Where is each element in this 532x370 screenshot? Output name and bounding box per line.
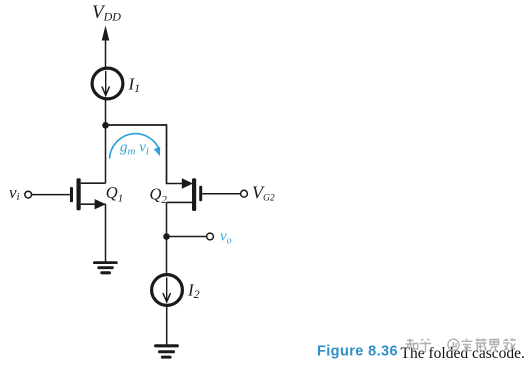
- wire I2 to ground: [166, 305, 168, 345]
- node B junction dot: [163, 233, 170, 240]
- svg-text:VG2: VG2: [252, 183, 275, 204]
- node A junction dot: [102, 122, 109, 129]
- wire Q1 drain to node A: [105, 125, 107, 183]
- gm vi label: [120, 140, 149, 158]
- wire down to Q2 source: [166, 124, 168, 184]
- current source I1: [92, 68, 123, 99]
- wire Q1 source to ground: [105, 204, 107, 261]
- wire Q2 gate to VG2 terminal: [202, 193, 240, 195]
- I2 value label: [187, 281, 200, 302]
- wire Q2 drain to node B: [166, 202, 168, 240]
- VG2 label: [252, 183, 275, 204]
- vi label: [9, 183, 20, 203]
- wire I1 to node A: [105, 99, 107, 128]
- watermark (zhihu): [406, 338, 517, 352]
- terminal VG2: [241, 190, 248, 197]
- svg-text:Q1: Q1: [106, 183, 123, 205]
- svg-text:gm vi: gm vi: [120, 140, 149, 158]
- wire node A to Q2 source (top horizontal): [106, 124, 167, 126]
- svg-text:Q2: Q2: [150, 185, 168, 207]
- transistor Q2: [167, 178, 203, 211]
- svg-text:I1: I1: [128, 75, 141, 96]
- wire node B to I2: [166, 237, 168, 276]
- svg-text:Figure 8.36: Figure 8.36: [317, 344, 398, 360]
- svg-text:I2: I2: [187, 281, 200, 302]
- wire vi to Q1 gate: [32, 194, 70, 196]
- current source I2: [152, 275, 183, 306]
- input terminal vi: [25, 191, 32, 198]
- transistor Q1: [70, 178, 106, 210]
- svg-text:vo: vo: [220, 229, 232, 247]
- svg-text:vi: vi: [9, 183, 20, 203]
- ground (under I2): [154, 344, 179, 358]
- VDD arrow: [102, 26, 110, 69]
- vo label: [220, 229, 232, 247]
- terminal vo: [207, 233, 214, 240]
- svg-text:VDD: VDD: [92, 2, 121, 24]
- I1 value label: [128, 75, 141, 96]
- Q1 label: [106, 183, 123, 205]
- gm vi current arc arrow: [110, 134, 161, 159]
- figure caption: [317, 344, 525, 363]
- wire node B to vo terminal: [167, 236, 207, 238]
- Q2 label: [150, 185, 168, 207]
- node VDD label: [92, 2, 121, 24]
- ground (under Q1): [93, 261, 118, 274]
